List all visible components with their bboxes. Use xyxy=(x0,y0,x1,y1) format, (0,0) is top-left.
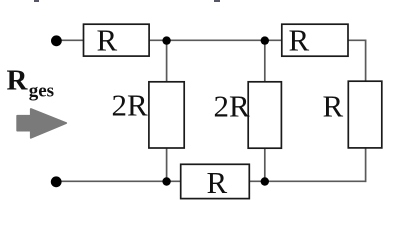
wire top right corner xyxy=(348,40,366,81)
wire 2R1 top lead xyxy=(166,40,168,82)
wire 2R2 top lead xyxy=(264,40,266,82)
arrow Rges direction xyxy=(17,109,66,138)
wire top rail middle xyxy=(149,39,282,41)
wire right R bottom lead xyxy=(365,148,367,182)
resistor R top-right xyxy=(282,23,348,58)
node junction top A xyxy=(162,36,170,44)
svg-text:R: R xyxy=(97,23,118,58)
svg-text:2R: 2R xyxy=(214,89,251,124)
artifact specks xyxy=(34,0,220,2)
svg-text:R: R xyxy=(289,23,310,58)
svg-text:R: R xyxy=(207,165,228,200)
wire top rail left xyxy=(56,39,84,41)
wire bottom rail right xyxy=(249,180,365,182)
node junction bottom B xyxy=(261,177,269,185)
resistor 2R left xyxy=(112,82,185,148)
svg-text:ges: ges xyxy=(29,80,54,101)
wire 2R1 bottom lead xyxy=(166,148,168,181)
wire 2R2 bottom lead xyxy=(264,148,266,181)
terminal bottom left xyxy=(51,176,62,187)
resistor R bottom xyxy=(181,164,250,200)
wire bottom rail left xyxy=(56,180,181,182)
node junction top B xyxy=(261,36,269,44)
svg-text:R: R xyxy=(323,89,344,124)
label Rges xyxy=(7,64,55,101)
resistor R top-left xyxy=(84,23,150,58)
resistor R right xyxy=(323,81,382,148)
svg-text:2R: 2R xyxy=(112,88,149,123)
node junction bottom A xyxy=(162,177,170,185)
resistor 2R middle xyxy=(214,82,282,148)
svg-text:R: R xyxy=(7,64,29,96)
terminal top left xyxy=(51,35,62,46)
